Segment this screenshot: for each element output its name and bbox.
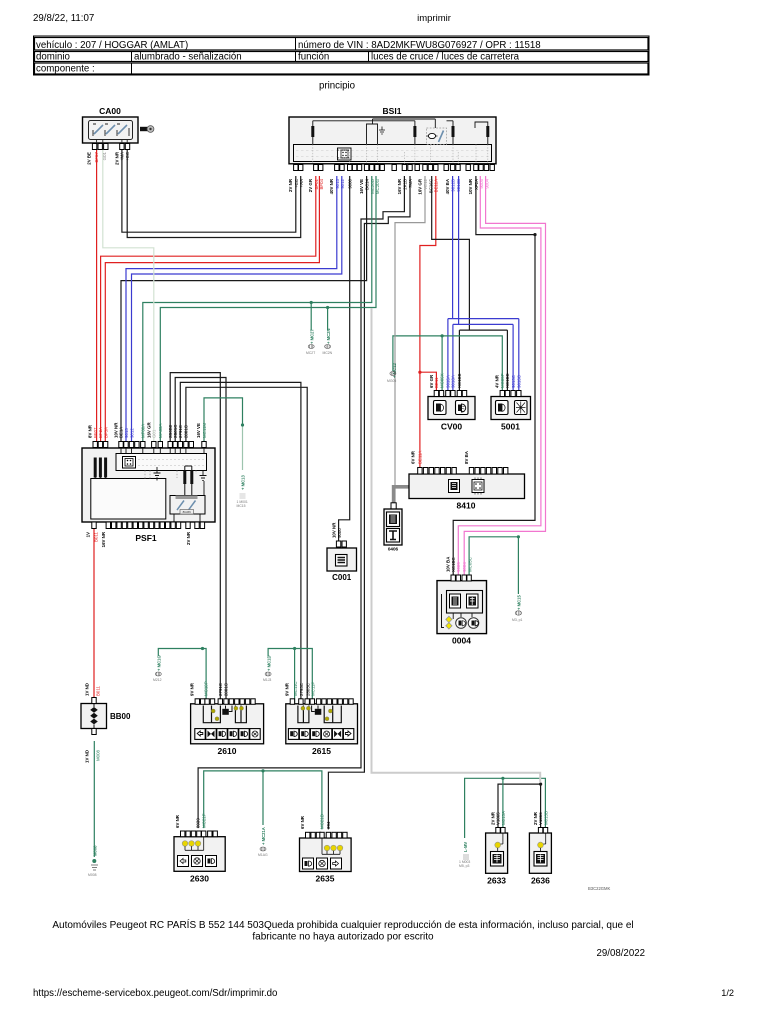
C001 pins (336, 541, 346, 547)
wire black BSI1 to 2635 (328, 176, 410, 829)
wire pale green splice MC13 tail (242, 425, 244, 470)
svg-text:6V GR: 6V GR (429, 374, 434, 388)
wire black PSF1 to 2610 b (175, 378, 226, 700)
svg-text:2791C: 2791C (218, 683, 223, 696)
svg-text:https://escheme-servicebox.peu: https://escheme-servicebox.peugeot.com/S… (33, 988, 277, 999)
svg-text:9013B: 9013B (456, 179, 461, 192)
svg-text:V1865: V1865 (496, 812, 501, 825)
wire black CA00 to BSI1 a (122, 150, 296, 232)
wire red CA00 to PSF1 (96, 150, 98, 441)
svg-text:10V NR: 10V NR (331, 522, 336, 538)
svg-text:M015B: M015B (544, 811, 549, 825)
wire green BB00 to ground (93, 741, 95, 857)
ECU BSI1 (289, 106, 496, 164)
wire blue BSI1 to CV00 5001 net a (448, 176, 519, 390)
junction dot green 2615 (293, 647, 296, 650)
svg-text:6V NR: 6V NR (411, 450, 416, 464)
wire green BSI1 to PSF1 b (160, 176, 376, 441)
5001 pins (500, 391, 521, 397)
svg-text:BF04: BF04 (319, 178, 324, 189)
wire pale grey tube to 2633 2636 (372, 308, 541, 782)
BSI1 pins (294, 165, 495, 171)
svg-text:CV00: CV00 (441, 422, 463, 432)
splice MV (459, 842, 470, 868)
PSF1 internal wires (95, 448, 204, 522)
wire black BSI1 to 2630 (198, 176, 404, 828)
svg-text:MC15: MC15 (237, 504, 246, 508)
PSF1 fuses mid (183, 466, 193, 496)
svg-text:B011: B011 (96, 686, 101, 696)
svg-text:9005: 9005 (456, 562, 461, 572)
wire green 0004 to splice MC15 (469, 537, 518, 594)
splice MC2V (323, 329, 333, 355)
lamp unit 0004 (437, 581, 487, 646)
CA00 pin labels (87, 151, 131, 165)
svg-text:BSI1: BSI1 (383, 106, 402, 116)
svg-text:8GM6: 8GM6 (183, 510, 192, 514)
svg-text:2V NR: 2V NR (114, 151, 119, 165)
BSI1 pin labels (288, 178, 489, 194)
svg-text:10V NR: 10V NR (468, 178, 473, 194)
svg-text:M008: M008 (88, 873, 97, 877)
svg-text:8939: 8939 (196, 818, 201, 828)
svg-text:+AA: +AA (299, 179, 304, 187)
svg-text:6V NR: 6V NR (175, 814, 180, 828)
svg-text:función: función (298, 52, 329, 63)
svg-text:8V NR: 8V NR (88, 424, 93, 438)
svg-text:MC21F: MC21F (201, 813, 206, 828)
BSI1 chip icon (338, 148, 352, 160)
splice MC21A (258, 827, 268, 857)
PSF1 top pin labels (88, 422, 207, 438)
svg-text:MC21D: MC21D (320, 814, 325, 829)
svg-text:2V NR: 2V NR (186, 531, 191, 545)
svg-text:2K1B: 2K1B (402, 179, 407, 190)
wire green 2630 2635 net (204, 771, 322, 830)
svg-text:9004: 9004 (462, 562, 467, 572)
wire black BSI1 to CV00 5001 net (432, 176, 508, 390)
svg-text:MF30A: MF30A (141, 424, 146, 438)
splice MC1D (263, 656, 271, 682)
wire green splice stubs from BSI1 nets (311, 303, 327, 331)
header table frame (34, 36, 650, 75)
2635 pins (306, 832, 348, 838)
svg-text:2633: 2633 (487, 876, 506, 886)
2615 bottom icons (288, 729, 353, 740)
svg-text:1/2: 1/2 (721, 988, 734, 998)
svg-text:+ MC13: + MC13 (241, 475, 246, 490)
wire red BSI1 to PSF1 b (105, 176, 319, 441)
svg-text:2791C: 2791C (178, 425, 183, 438)
svg-text:M008: M008 (93, 845, 98, 856)
svg-text:6V NR: 6V NR (300, 815, 305, 829)
svg-text:394: 394 (326, 821, 331, 829)
BSI1 internal ground (379, 127, 385, 135)
svg-text:2630: 2630 (190, 874, 209, 884)
svg-text:XC1BD: XC1BD (505, 373, 510, 388)
2636 pin labels (533, 811, 549, 825)
svg-text:+ MC21A: + MC21A (261, 827, 266, 845)
BSI1 relay (427, 128, 447, 145)
wire blue BSI1 to PSF1 b (132, 176, 342, 441)
svg-text:BF3A: BF3A (103, 427, 108, 438)
svg-text:9005: 9005 (479, 178, 484, 188)
2610 bottom icons (195, 729, 260, 740)
2636 pins (538, 828, 547, 834)
svg-text:MC05K: MC05K (439, 373, 444, 388)
PSF1 ground symbol a (154, 467, 161, 478)
svg-text:7MA: 7MA (408, 179, 413, 188)
svg-text:MC2T: MC2T (306, 351, 315, 355)
2615 pin labels (285, 681, 316, 696)
svg-text:5001: 5001 (501, 422, 520, 432)
2635 pin labels (300, 814, 331, 829)
svg-text:imprimir: imprimir (417, 13, 451, 24)
2630 bottom icons (178, 856, 217, 867)
svg-text:10V BA: 10V BA (446, 556, 451, 572)
switch CA00 (83, 106, 139, 143)
0004 pins (451, 575, 471, 581)
svg-text:CA00: CA00 (99, 106, 121, 116)
svg-text:10V NR: 10V NR (113, 422, 118, 438)
svg-text:0406: 0406 (388, 547, 399, 552)
svg-text:M008: M008 (96, 749, 101, 761)
svg-text:0004: 0004 (452, 636, 471, 646)
svg-text:principio: principio (319, 81, 355, 92)
wire red BSI1 to PSF1 a (101, 176, 316, 441)
svg-text:G01: G01 (152, 429, 157, 438)
svg-text:9013A: 9013A (451, 375, 456, 388)
svg-text:2610: 2610 (218, 746, 237, 756)
junction dot black 2636 net (539, 783, 542, 786)
svg-text:BF07: BF07 (94, 151, 99, 162)
svg-text:2636: 2636 (531, 876, 550, 886)
wire black PSF1 to 2615 a (180, 382, 301, 704)
svg-text:XC1BB: XC1BB (457, 374, 462, 388)
wire black BSI1 to C001 (339, 176, 350, 541)
PSF1 bottom pins (92, 522, 205, 529)
svg-text:+MA: +MA (120, 152, 125, 161)
wire green splice MC1G to 2610 (158, 649, 206, 700)
wire black PSF1 to 2610 a (170, 373, 220, 700)
2630 pins (181, 831, 218, 837)
svg-text:M3, p1: M3, p1 (512, 618, 522, 622)
2630 pin labels (175, 813, 206, 828)
junction dot green splice a (310, 301, 313, 304)
BSI1 fuse F2 (413, 126, 416, 145)
svg-text:9V NR: 9V NR (190, 682, 195, 696)
svg-text:BE11: BE11 (434, 377, 439, 388)
svg-text:MG05: MG05 (387, 379, 396, 383)
C001 pin labels (331, 522, 342, 538)
splice M008 (88, 845, 98, 877)
junction dot green 2633 net (501, 777, 504, 780)
2635 bottom icons (303, 858, 342, 869)
svg-text:VE12: VE12 (423, 178, 428, 189)
svg-text:9000: 9000 (337, 528, 342, 538)
CV00 pins (434, 391, 466, 397)
svg-text:M212: M212 (153, 678, 162, 682)
svg-text:B3C22GMK: B3C22GMK (588, 886, 611, 891)
svg-text:+ MC2T: + MC2T (309, 329, 314, 344)
key icon (140, 126, 154, 133)
svg-text:MC11C: MC11C (293, 681, 298, 696)
wire green BSI1 to PSF1 a (143, 176, 372, 441)
svg-text:9000: 9000 (348, 178, 353, 188)
wire blue BSI1 to CV00 5001 net b (453, 176, 513, 390)
lamp unit 2630 (174, 837, 225, 884)
wire red PSF1 to BB00 (93, 529, 95, 704)
BSI1 fuse F1 (311, 121, 314, 145)
splice MC15 (512, 595, 522, 622)
BSI1 fuse F3 (447, 121, 455, 145)
BSI1 internal link wire (313, 121, 415, 126)
junction dot green CV00 drop (441, 334, 444, 337)
svg-text:1V ND: 1V ND (85, 683, 90, 696)
wire green PSF1 to splice MC13 (204, 398, 243, 441)
svg-text:9012: 9012 (129, 428, 134, 438)
svg-text:40V BA: 40V BA (445, 178, 450, 194)
svg-text:9012: 9012 (340, 178, 345, 188)
5001 pin labels (495, 373, 522, 388)
headlamp unit CV00 (428, 397, 475, 432)
svg-text:alumbrado - señalización: alumbrado - señalización (134, 52, 242, 63)
svg-text:2V NR: 2V NR (490, 811, 495, 825)
svg-text:vehículo : 207 / HOGGAR (AMLAT: vehículo : 207 / HOGGAR (AMLAT) (36, 40, 188, 51)
svg-text:8V BA: 8V BA (464, 450, 469, 464)
svg-text:9012B: 9012B (451, 179, 456, 192)
BSI1 internal link wire b (373, 119, 436, 128)
junction dot green splice b (326, 306, 329, 309)
svg-text:+CC: +CC (125, 152, 130, 161)
PSF1 relay (170, 496, 205, 515)
splice MC12 (387, 363, 397, 383)
svg-text:9013C: 9013C (511, 375, 516, 388)
lamp unit 2633 (486, 833, 508, 886)
wire red BSI1 to CV00 and 8410 (420, 176, 436, 467)
svg-text:Automóviles Peugeot RC PARÍS B: Automóviles Peugeot RC PARÍS B 552 144 5… (52, 918, 633, 931)
PSF1 fuses left (94, 458, 107, 478)
wire grey BSI1 to 0406 (395, 176, 425, 509)
wire black feed 2633 2636 (498, 784, 541, 829)
junction dot black XF net (533, 233, 536, 236)
wire pink BSI1 to 0004 a (458, 176, 541, 576)
wire black BSI1 to 0004 (453, 176, 535, 576)
2610 pin labels (190, 681, 229, 696)
svg-text:componente :: componente : (36, 64, 95, 75)
2615 pins (290, 699, 353, 705)
svg-text:M015A: M015A (501, 811, 506, 825)
svg-text:9004: 9004 (484, 178, 489, 188)
svg-text:+ MC1G: + MC1G (157, 655, 162, 671)
svg-text:16V VE: 16V VE (359, 179, 364, 194)
svg-text:2V NR: 2V NR (288, 178, 293, 192)
2633 pin labels (490, 811, 506, 825)
wire red branch to CV00 (420, 372, 437, 390)
PSF1 top pins (93, 442, 206, 448)
fuse box PSF1 (82, 448, 215, 543)
junction dot green MC13 tail (241, 423, 244, 426)
svg-text:luces de cruce / luces de carr: luces de cruce / luces de carretera (371, 52, 520, 63)
svg-text:MC11P: MC11P (310, 682, 315, 696)
wire black PSF1 to 2615 b (186, 387, 307, 704)
svg-text:9013: 9013 (124, 428, 129, 438)
svg-text:2635: 2635 (316, 874, 335, 884)
splice MC13 (237, 475, 248, 508)
svg-text:16V NR: 16V NR (397, 178, 402, 194)
junction dot red CV00 branch (418, 371, 421, 374)
svg-text:16V VE: 16V VE (196, 423, 201, 438)
svg-text:M5, p3: M5, p3 (459, 864, 469, 868)
svg-text:L-MV: L-MV (463, 842, 468, 852)
wire blue BSI1 to PSF1 a (126, 176, 337, 441)
junction dot green 2630 net (261, 769, 264, 772)
svg-text:29/8/22, 11:07: 29/8/22, 11:07 (33, 13, 94, 24)
svg-text:2615: 2615 (312, 746, 331, 756)
wire black CA00 to BSI1 b (127, 150, 301, 238)
svg-text:+ MC15: + MC15 (517, 595, 522, 610)
svg-text:MC05C: MC05C (468, 557, 473, 572)
svg-text:9V NR: 9V NR (285, 682, 290, 696)
svg-text:B011: B011 (94, 531, 99, 541)
svg-text:BE11A: BE11A (417, 451, 422, 464)
wire pink BSI1 to 0004 b (464, 176, 545, 576)
svg-text:MA33A: MA33A (158, 424, 163, 438)
wire grey thick 8410 to 0406 (394, 487, 409, 503)
svg-text:número de VIN : 8AD2MKFWU8G076: número de VIN : 8AD2MKFWU8G076927 / OPR … (298, 40, 541, 51)
svg-text:MC11M: MC11M (202, 423, 207, 438)
PSF1 bottom pin labels (86, 531, 192, 547)
junction dot green 2610 (201, 647, 204, 650)
8410 pins (418, 468, 508, 475)
svg-text:+ MC1D: + MC1D (266, 656, 271, 671)
svg-text:2V GR: 2V GR (308, 178, 313, 192)
svg-text:4V NR: 4V NR (495, 374, 500, 388)
svg-text:2801C: 2801C (224, 683, 229, 696)
wire green net CV00 5001 (393, 336, 502, 390)
CA00 pins (92, 144, 129, 150)
connector C001 (327, 548, 357, 582)
svg-text:2801C: 2801C (184, 425, 189, 438)
ballast BB00 (81, 698, 131, 735)
fuse unit 2610 (191, 704, 264, 756)
svg-text:fabricante no haya autorizado: fabricante no haya autorizado por escrit… (252, 932, 434, 943)
8410 pin labels (411, 450, 470, 464)
CV00 pin labels (429, 373, 462, 388)
BSI1 internal bracket (367, 119, 378, 145)
svg-text:MC2N: MC2N (323, 351, 333, 355)
splice MC1G (153, 655, 162, 682)
svg-text:BE11A: BE11A (434, 179, 439, 192)
svg-text:29/08/2022: 29/08/2022 (597, 948, 646, 959)
splice MC2H (306, 329, 315, 355)
wire pale green CA00 to PSF1 (103, 150, 154, 441)
svg-text:C001: C001 (332, 573, 352, 582)
2610 pins (195, 699, 255, 705)
svg-text:M1J3: M1J3 (263, 678, 271, 682)
lamp unit 5001 (491, 397, 531, 432)
wire green 2633 2636 net (465, 778, 546, 838)
svg-text:M1AG: M1AG (258, 853, 268, 857)
svg-text:16V NR: 16V NR (101, 531, 106, 547)
svg-text:dominio: dominio (36, 52, 70, 63)
BB00 pin labels (85, 683, 101, 763)
lamp unit 2635 (300, 838, 352, 884)
svg-text:BE1A: BE1A (119, 427, 124, 438)
junction dot green MC15 (517, 535, 520, 538)
PSF1 ground symbol b (200, 471, 207, 481)
connector 0406 (384, 509, 402, 552)
fuse unit 2615 (286, 704, 358, 756)
svg-text:BB00: BB00 (110, 712, 131, 721)
svg-text:G01: G01 (102, 151, 107, 160)
svg-text:PSF1: PSF1 (135, 533, 157, 543)
svg-text:1V: 1V (86, 532, 91, 537)
svg-text:40V NR: 40V NR (329, 178, 334, 194)
svg-text:1V ND: 1V ND (85, 750, 90, 763)
svg-text:V1866: V1866 (538, 812, 543, 825)
0004 pin labels (446, 556, 473, 572)
svg-text:8410: 8410 (457, 501, 476, 511)
wire green splice MC1D to 2615 (268, 649, 312, 705)
svg-text:2V BE: 2V BE (87, 152, 92, 165)
wire black BSI1 to PSF1 (121, 176, 367, 441)
2633 pins (496, 828, 505, 834)
svg-text:MC18P: MC18P (204, 681, 209, 696)
BSI1 dashed drops (313, 145, 488, 165)
svg-text:16V GR: 16V GR (418, 178, 423, 194)
svg-text:9015C: 9015C (517, 375, 522, 388)
svg-text:2793C: 2793C (299, 683, 304, 696)
svg-text:+ MC2N: + MC2N (326, 329, 331, 344)
lamp unit 2636 (529, 833, 551, 886)
module 8410 (409, 474, 525, 511)
svg-text:MC20G: MC20G (375, 178, 380, 194)
BSI1 fuse F4 (475, 122, 489, 145)
